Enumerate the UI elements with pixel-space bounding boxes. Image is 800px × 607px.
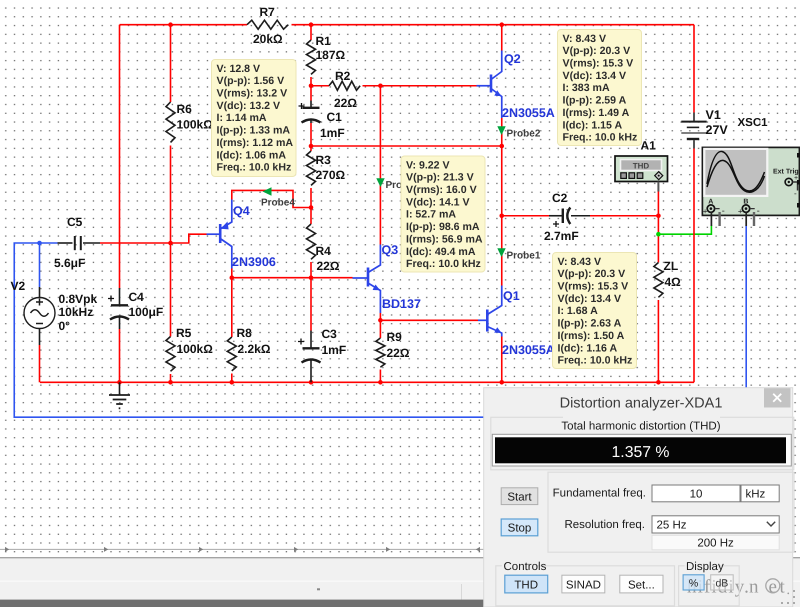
svg-text:0°: 0° — [59, 319, 71, 333]
wire: C4 bottom to ground rail — [119, 329, 121, 382]
node: ground rail junction x=658.4 — [656, 380, 661, 385]
svg-text:C2: C2 — [552, 191, 568, 205]
svg-text:V(p-p): 21.3 V: V(p-p): 21.3 V — [406, 172, 474, 184]
node: ground rail junction x=311 — [309, 380, 314, 385]
node: C2 / A1 / ZL junction — [656, 213, 661, 218]
instrument window: Distortion analyzer-XDA1 — [484, 388, 793, 607]
node: Q2 collector junction — [499, 22, 504, 27]
wire: top rail to R1 — [310, 25, 312, 40]
svg-text:-: - — [757, 205, 760, 215]
capacitor C2 (polarized, horizontal) — [549, 208, 590, 225]
source V2 (AC) — [24, 287, 55, 345]
svg-text:V(rms): 16.0 V: V(rms): 16.0 V — [406, 184, 477, 196]
svg-text:200 Hz: 200 Hz — [697, 537, 734, 549]
wire: ground rail — [40, 381, 694, 383]
node: R1 bottom / C1 top junction — [309, 83, 314, 88]
svg-text:BD137: BD137 — [382, 297, 421, 311]
svg-text:+: + — [298, 99, 305, 113]
svg-text:2N3055A: 2N3055A — [502, 343, 555, 357]
svg-text:-: - — [794, 189, 797, 198]
svg-text:V: 8.43 V: V: 8.43 V — [558, 256, 602, 268]
svg-text:22Ω: 22Ω — [317, 259, 340, 273]
wire: R1 bottom to C1 — [310, 77, 312, 101]
kHz unit box — [741, 485, 779, 502]
wire: top rail left of R7 — [120, 24, 248, 26]
svg-text:I: 383 mA: I: 383 mA — [563, 82, 610, 94]
wire: left rail down to C4 — [119, 25, 121, 288]
svg-text:10kHz: 10kHz — [59, 305, 94, 319]
wire: top rail to V1 + — [693, 25, 695, 113]
svg-text:SINAD: SINAD — [566, 579, 601, 591]
node: ground rail junction x=119.5 — [117, 380, 122, 385]
svg-text:270Ω: 270Ω — [316, 168, 346, 182]
transistor Q1 (2N3055A NPN) — [478, 286, 502, 337]
svg-text:+: + — [108, 292, 115, 306]
resistor R5 — [166, 337, 175, 372]
svg-text:20kΩ: 20kΩ — [253, 32, 283, 46]
wire: top rail right of R7 — [292, 24, 695, 26]
SINAD button — [562, 575, 605, 593]
THD numeric display — [492, 434, 791, 466]
status bar area below canvas — [0, 557, 800, 607]
svg-text:I(p-p): 1.33 mA: I(p-p): 1.33 mA — [217, 125, 291, 137]
wire: Q4 collector down — [231, 269, 233, 278]
node: V2/C5 junction (blue) — [37, 241, 42, 246]
svg-text:.: . — [787, 583, 791, 598]
svg-text:1mF: 1mF — [320, 126, 345, 140]
wire: node to R8 top — [231, 278, 233, 337]
resistor R8 — [227, 337, 236, 371]
svg-text:Q4: Q4 — [233, 204, 250, 218]
wire: R6 bottom to R5 top — [170, 146, 172, 337]
svg-text:27V: 27V — [706, 123, 729, 137]
dB button (translucent) — [711, 575, 734, 590]
node: C5 output / R6-R5 junction — [168, 241, 173, 246]
fundamental frequency input — [652, 485, 740, 502]
svg-text:Fundamental freq.: Fundamental freq. — [553, 487, 646, 499]
resistor R9 — [376, 338, 385, 367]
svg-text:I(rms): 56.9 mA: I(rms): 56.9 mA — [406, 233, 483, 245]
svg-text:Start: Start — [507, 491, 532, 503]
200 Hz readout box — [652, 535, 779, 550]
capacitor C3 (polarized) — [302, 331, 321, 383]
wire: rail to Q2 collector — [501, 25, 503, 51]
node: ground rail junction x=170.5 — [168, 380, 173, 385]
resistor R2 — [329, 81, 360, 90]
THD button (active) — [505, 575, 548, 593]
svg-text:n: n — [749, 577, 759, 598]
probe Probe3 (arrow) — [376, 178, 384, 187]
svg-text:5.6μF: 5.6μF — [54, 256, 85, 270]
resistor ZL — [654, 263, 663, 298]
svg-text:10: 10 — [690, 489, 703, 501]
svg-text:V: 12.8 V: V: 12.8 V — [217, 63, 261, 75]
wire: V2 bottom to ground rail — [39, 345, 41, 382]
wire: R4 bottom to Q4 collector node — [310, 262, 312, 278]
window close button — [764, 388, 791, 407]
svg-text:I(dc): 1.16 A: I(dc): 1.16 A — [558, 342, 618, 354]
node: ground rail junction x=501.75 — [499, 380, 504, 385]
svg-text:R3: R3 — [316, 153, 332, 167]
transistor Q2 (2N3055A NPN) — [477, 51, 502, 119]
wire: Q4 emitter to R3/R4 junction — [232, 190, 310, 207]
wire: Q2 emitter down to Q1 collector — [501, 118, 503, 286]
svg-text:Probe4: Probe4 — [261, 198, 295, 209]
svg-text:187Ω: 187Ω — [316, 48, 346, 62]
svg-text:2.7mF: 2.7mF — [544, 229, 579, 243]
svg-text:R1: R1 — [316, 34, 332, 48]
svg-text:Freq.: 10.0 kHz: Freq.: 10.0 kHz — [558, 355, 633, 367]
node: R3/R4 junction — [309, 205, 314, 210]
window resize grip — [781, 590, 795, 604]
svg-text:I(rms): 1.50 A: I(rms): 1.50 A — [558, 330, 625, 342]
node: R2 output / Q3 collector junction — [378, 83, 383, 88]
wire: Q3 emitter to Q1 base — [380, 319, 478, 321]
wire: C5 to Q4 base — [100, 234, 207, 243]
svg-text:2.2kΩ: 2.2kΩ — [238, 342, 271, 356]
svg-text:I(p-p): 98.6 mA: I(p-p): 98.6 mA — [406, 221, 480, 233]
probe readout box Probe2 — [558, 30, 642, 146]
svg-text:R9: R9 — [387, 330, 403, 344]
svg-text:R6: R6 — [177, 102, 193, 116]
svg-text:Freq.: 10.0 kHz: Freq.: 10.0 kHz — [563, 132, 638, 144]
wire: green wire to scope A — [658, 226, 711, 235]
wire: Q4 collector to Q3 base — [232, 277, 353, 279]
svg-text:22Ω: 22Ω — [334, 96, 357, 110]
svg-text:dB: dB — [715, 577, 728, 589]
node: R6 top junction — [168, 22, 173, 27]
svg-text:V(dc): 14.1 V: V(dc): 14.1 V — [406, 196, 470, 208]
svg-text:V(dc): 13.2 V: V(dc): 13.2 V — [217, 100, 281, 112]
svg-text:25 Hz: 25 Hz — [657, 520, 687, 532]
wire: R9 bottom to ground rail — [379, 370, 381, 383]
wire: down to Q3 collector — [379, 86, 381, 245]
wire: V1 - to ground rail — [693, 149, 695, 383]
svg-text:V(p-p): 20.3 V: V(p-p): 20.3 V — [563, 45, 631, 57]
svg-text:4Ω: 4Ω — [665, 275, 682, 289]
svg-text:C5: C5 — [67, 215, 83, 229]
resistor R7 — [247, 20, 288, 29]
capacitor C4 (polarized) — [110, 288, 129, 329]
probe Probe4 (arrow) — [263, 187, 272, 195]
wire: scope B blue wire down to analyzer — [745, 226, 747, 389]
node: ground rail junction x=231.8 — [230, 380, 235, 385]
svg-text:I: 52.7 mA: I: 52.7 mA — [406, 209, 456, 221]
svg-text:V(dc): 13.4 V: V(dc): 13.4 V — [558, 293, 622, 305]
node: output node at C2 — [499, 213, 504, 218]
svg-text:V(rms): 15.3 V: V(rms): 15.3 V — [563, 58, 634, 70]
svg-text:I: 1.14 mA: I: 1.14 mA — [217, 112, 267, 124]
svg-text:1mF: 1mF — [322, 343, 347, 357]
capacitor C1 (polarized) — [302, 101, 321, 124]
wire: top rail to R6 — [170, 25, 172, 102]
wire: R2 right to Q2 base — [363, 85, 477, 87]
wire: R4 node down to C3 — [310, 278, 312, 331]
wire: Q1 emitter to ground rail — [501, 337, 503, 383]
svg-text:V(dc): 13.4 V: V(dc): 13.4 V — [563, 70, 627, 82]
percent button (active, translucent) — [683, 575, 704, 590]
probe readout box Probe1 — [553, 253, 637, 369]
svg-text:Display: Display — [686, 561, 724, 573]
wire: ZL bottom to ground rail — [657, 300, 659, 383]
probe Probe2 (arrow) — [497, 126, 505, 135]
svg-text:I(p-p): 2.59 A: I(p-p): 2.59 A — [563, 95, 627, 107]
node: Q4 collector / R8 / Q3 base junction — [230, 275, 235, 280]
svg-text:V(p-p): 20.3 V: V(p-p): 20.3 V — [558, 268, 626, 280]
svg-text:THD: THD — [514, 579, 538, 591]
svg-text:%: % — [689, 577, 698, 589]
Controls group box — [496, 561, 675, 606]
instrument XSC1 oscilloscope — [702, 147, 800, 226]
Display group box — [679, 561, 740, 606]
svg-text:ZL: ZL — [664, 259, 679, 273]
svg-text:I(p-p): 2.63 A: I(p-p): 2.63 A — [558, 318, 622, 330]
resistor R4 — [307, 224, 316, 259]
frequency group box — [548, 472, 794, 552]
svg-text:I(dc): 1.15 A: I(dc): 1.15 A — [563, 119, 623, 131]
svg-text:Stop: Stop — [508, 523, 532, 535]
svg-text:I(dc): 49.4 mA: I(dc): 49.4 mA — [406, 246, 476, 258]
svg-text:C3: C3 — [322, 327, 338, 341]
svg-text:Q1: Q1 — [503, 289, 520, 303]
svg-text:Q3: Q3 — [382, 243, 399, 257]
svg-text:+: + — [298, 335, 305, 349]
resistor R1 — [307, 40, 316, 74]
capacitor C5 — [58, 236, 101, 250]
source V1 (battery 27V) — [681, 113, 706, 149]
svg-text:V(rms): 15.3 V: V(rms): 15.3 V — [558, 281, 629, 293]
svg-text:R7: R7 — [260, 5, 276, 19]
taskbar dark strip — [0, 600, 484, 607]
Stop button (active) — [501, 519, 538, 536]
THD group box — [491, 413, 794, 470]
svg-text:Distortion analyzer-XDA1: Distortion analyzer-XDA1 — [560, 396, 723, 412]
svg-text:R4: R4 — [316, 244, 332, 258]
svg-text:100μF: 100μF — [129, 305, 164, 319]
svg-text:C4: C4 — [129, 290, 145, 304]
svg-text:100kΩ: 100kΩ — [177, 118, 214, 132]
wire: blue loop V2/C5 to analyzer input (bottom run) — [14, 243, 483, 417]
svg-text:2N3906: 2N3906 — [232, 255, 276, 269]
wire: output node to C2 left — [502, 215, 549, 217]
wire: node down to ZL — [657, 191, 659, 263]
svg-text:Probe2: Probe2 — [507, 129, 541, 140]
svg-text:100kΩ: 100kΩ — [177, 342, 214, 356]
wire: R5 bottom to ground rail — [170, 374, 172, 382]
Set... button — [620, 575, 663, 593]
wire: node to R9 top — [379, 320, 381, 338]
svg-text:Probe1: Probe1 — [507, 251, 541, 262]
resistor R6 — [166, 102, 175, 142]
ground — [109, 382, 130, 408]
svg-text:-: - — [722, 205, 725, 215]
wire: C1 top node to R2 left — [311, 85, 329, 87]
svg-text:A1: A1 — [641, 139, 657, 153]
svg-text:V1: V1 — [706, 108, 721, 122]
wire: R4 top — [310, 208, 312, 225]
node: C1 bottom / R3 / bootstrap junction — [309, 144, 314, 149]
svg-text:V: 8.43 V: V: 8.43 V — [563, 33, 607, 45]
sheet border line with tick marks — [0, 547, 484, 552]
transistor Q3 (BD137 NPN) — [353, 245, 381, 314]
svg-text:t: t — [780, 577, 786, 598]
probe readout box Probe3 — [401, 156, 485, 272]
svg-text:Freq.: 10.0 kHz: Freq.: 10.0 kHz — [217, 162, 292, 174]
wire: C2 right to ZL node — [590, 215, 658, 217]
svg-text:I(rms): 1.12 mA: I(rms): 1.12 mA — [217, 137, 294, 149]
svg-text:Set...: Set... — [628, 579, 655, 591]
node: Q2 emitter / bootstrap junction — [499, 144, 504, 149]
svg-text:22Ω: 22Ω — [387, 346, 410, 360]
svg-text:C1: C1 — [327, 110, 343, 124]
resolution dropdown — [652, 516, 779, 533]
svg-text:0.8Vpk: 0.8Vpk — [59, 292, 98, 306]
instrument A1 THD meter — [615, 156, 668, 192]
svg-text:THD: THD — [633, 161, 650, 170]
svg-text:V(rms): 13.2 V: V(rms): 13.2 V — [217, 88, 288, 100]
svg-text:2N3055A: 2N3055A — [502, 106, 555, 120]
svg-text:1.357 %: 1.357 % — [612, 444, 670, 461]
svg-text:R2: R2 — [335, 69, 351, 83]
svg-text:I(rms): 1.49 A: I(rms): 1.49 A — [563, 107, 630, 119]
watermark hifidiy.net — [687, 577, 790, 599]
svg-text:Controls: Controls — [504, 561, 547, 573]
node: Q3 emitter / R9 / Q1 base junction — [378, 318, 383, 323]
wire: R3 bottom — [310, 188, 312, 208]
node: green junction on ZL wire — [656, 232, 661, 237]
svg-text:I: 1.68 A: I: 1.68 A — [558, 305, 599, 317]
wire: Q3 emitter down — [379, 313, 381, 320]
svg-text:Freq.: 10.0 kHz: Freq.: 10.0 kHz — [406, 258, 481, 270]
transistor Q4 (2N3906 PNP) — [207, 200, 232, 269]
wire: bootstrap node to Q2 emitter — [311, 145, 502, 147]
svg-text:V: 9.22 V: V: 9.22 V — [406, 159, 450, 171]
svg-text:+: + — [738, 207, 743, 216]
svg-text:XSC1: XSC1 — [738, 117, 769, 129]
svg-text:I(dc): 1.06 mA: I(dc): 1.06 mA — [217, 149, 287, 161]
wire: R8 bottom to ground rail — [231, 374, 233, 383]
node: ground rail junction x=380.4 — [378, 380, 383, 385]
svg-text:Total harmonic distortion (THD: Total harmonic distortion (THD) — [561, 421, 720, 433]
node: R1 top junction — [309, 22, 314, 27]
Start button — [501, 488, 538, 505]
probe Probe1 (arrow) — [497, 248, 505, 257]
svg-text:+: + — [703, 207, 708, 216]
resistor R3 — [307, 151, 316, 185]
svg-text:R8: R8 — [237, 326, 253, 340]
svg-text:Q2: Q2 — [504, 52, 521, 66]
svg-text:V(p-p): 1.56 V: V(p-p): 1.56 V — [217, 75, 285, 87]
node: R4 bottom on Q3 base wire — [309, 275, 314, 280]
svg-text:V2: V2 — [11, 279, 26, 293]
probe readout box Probe4 — [212, 60, 297, 177]
wire: V2 top lead blue — [39, 243, 41, 287]
svg-text:R5: R5 — [176, 326, 192, 340]
svg-text:kHz: kHz — [746, 489, 766, 501]
svg-text:Resolution freq.: Resolution freq. — [564, 519, 645, 531]
wire: C1 bottom to R3 top — [310, 123, 312, 151]
